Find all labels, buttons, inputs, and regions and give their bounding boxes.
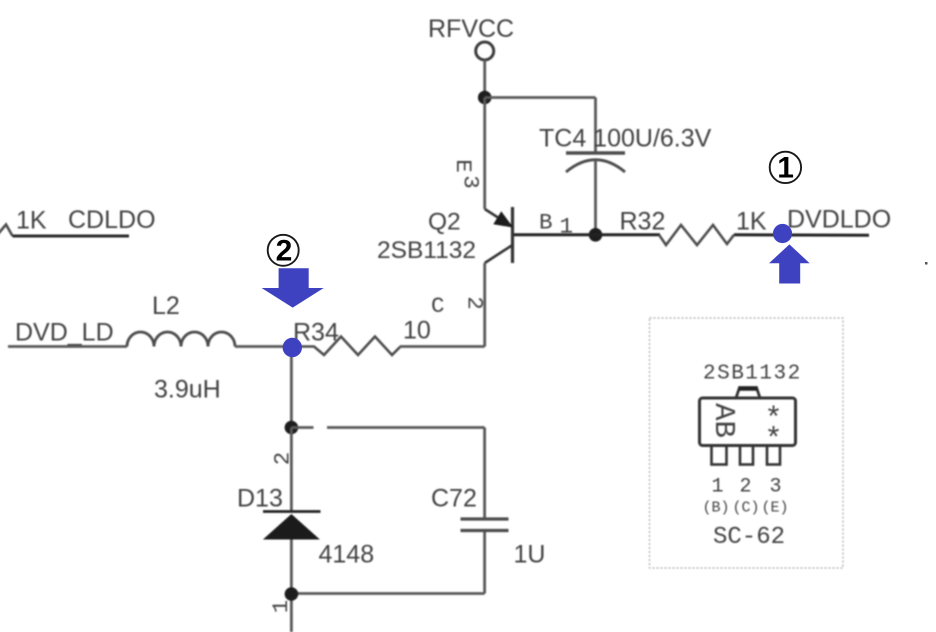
svg-text:DVD_LD: DVD_LD (15, 319, 114, 347)
svg-text:TC4 100U/6.3V: TC4 100U/6.3V (539, 125, 712, 153)
svg-text:4148: 4148 (319, 541, 375, 569)
svg-text:B: B (539, 210, 553, 236)
package pin 2 (740, 446, 753, 465)
marker arrow up (blue) (769, 244, 810, 283)
svg-text:CDLDO: CDLDO (68, 206, 156, 234)
svg-text:R32: R32 (620, 208, 666, 236)
svg-text:D13: D13 (237, 485, 283, 513)
svg-text:SC-62: SC-62 (713, 524, 785, 551)
diode D13 (263, 512, 321, 540)
svg-text:E: E (450, 159, 476, 173)
svg-text:Q2: Q2 (428, 209, 461, 236)
svg-text:1: 1 (560, 214, 574, 240)
svg-text:1U: 1U (514, 541, 546, 569)
wire base (513, 233, 661, 236)
marker circled 1 (770, 152, 801, 185)
svg-text:L2: L2 (152, 292, 180, 320)
svg-text:2SB1132: 2SB1132 (703, 363, 802, 386)
wire DVD_LD (8, 345, 127, 348)
svg-text:1: 1 (711, 476, 723, 499)
svg-text:(C): (C) (732, 500, 759, 517)
wire C72 bottom (483, 532, 486, 594)
svg-text:(E): (E) (761, 500, 788, 517)
stray mark right edge (925, 262, 928, 265)
junction base node (589, 228, 603, 242)
svg-text:DVDLDO: DVDLDO (787, 206, 891, 234)
resistor R32 (659, 225, 734, 245)
svg-text:C72: C72 (431, 485, 477, 513)
wire C72 down (483, 428, 486, 519)
capacitor C72 (461, 519, 509, 531)
svg-text:3: 3 (458, 175, 484, 189)
transistor Q2 (485, 207, 513, 263)
test point dot 2 (blue) (283, 338, 302, 357)
svg-text:3.9uH: 3.9uH (154, 376, 221, 404)
junction diode top (285, 421, 299, 435)
marker arrow down (blue) (262, 268, 324, 307)
svg-text:C: C (431, 293, 445, 319)
package pin 1 (712, 446, 727, 465)
wire TC4 bottom (594, 160, 597, 235)
svg-text:1K: 1K (736, 208, 767, 236)
wire R32 to DVDLDO (734, 233, 869, 237)
svg-text:2: 2 (739, 476, 751, 499)
transistor Q2 emitter arrow (495, 213, 512, 227)
junction bottom (285, 587, 299, 601)
resistor R34 (300, 337, 401, 356)
svg-text:2: 2 (276, 234, 293, 267)
svg-text:AB: AB (707, 403, 740, 438)
package tab (736, 388, 760, 399)
erase mark on wire (314, 420, 328, 434)
wire diode cathode (290, 540, 293, 632)
junction top (478, 91, 492, 105)
wire L2 to node (235, 345, 292, 348)
power terminal RFVCC (476, 42, 494, 60)
wire top horizontal (485, 96, 596, 99)
wire CDLDO (13, 235, 130, 238)
svg-text:1: 1 (268, 600, 294, 614)
package pin 3 (767, 446, 780, 465)
test point dot 1 (blue) (773, 224, 792, 243)
capacitor TC4 (566, 153, 625, 172)
wire R34 to collector (400, 345, 485, 348)
svg-text:3: 3 (769, 476, 781, 499)
wire node down (290, 348, 293, 428)
package body (700, 398, 796, 446)
svg-text:2SB1132: 2SB1132 (377, 237, 476, 264)
svg-text:(B): (B) (702, 500, 729, 517)
package info box SC-62 (650, 318, 844, 568)
svg-text:RFVCC: RFVCC (428, 15, 514, 43)
svg-text:10: 10 (403, 317, 431, 345)
marker circled 2 (268, 234, 299, 267)
svg-text:1: 1 (777, 152, 794, 185)
resistor 1K CDLDO stub (0, 225, 13, 237)
wire RFVCC stem (483, 60, 486, 98)
wire collector (483, 263, 486, 347)
wire bottom horizontal (291, 592, 484, 595)
wire TC4 top (594, 98, 597, 154)
svg-text:1K: 1K (16, 207, 47, 235)
inductor L2 (127, 332, 235, 347)
wire to C72 top (291, 426, 484, 429)
wire emitter (483, 98, 486, 210)
wire diode anode (290, 428, 293, 512)
